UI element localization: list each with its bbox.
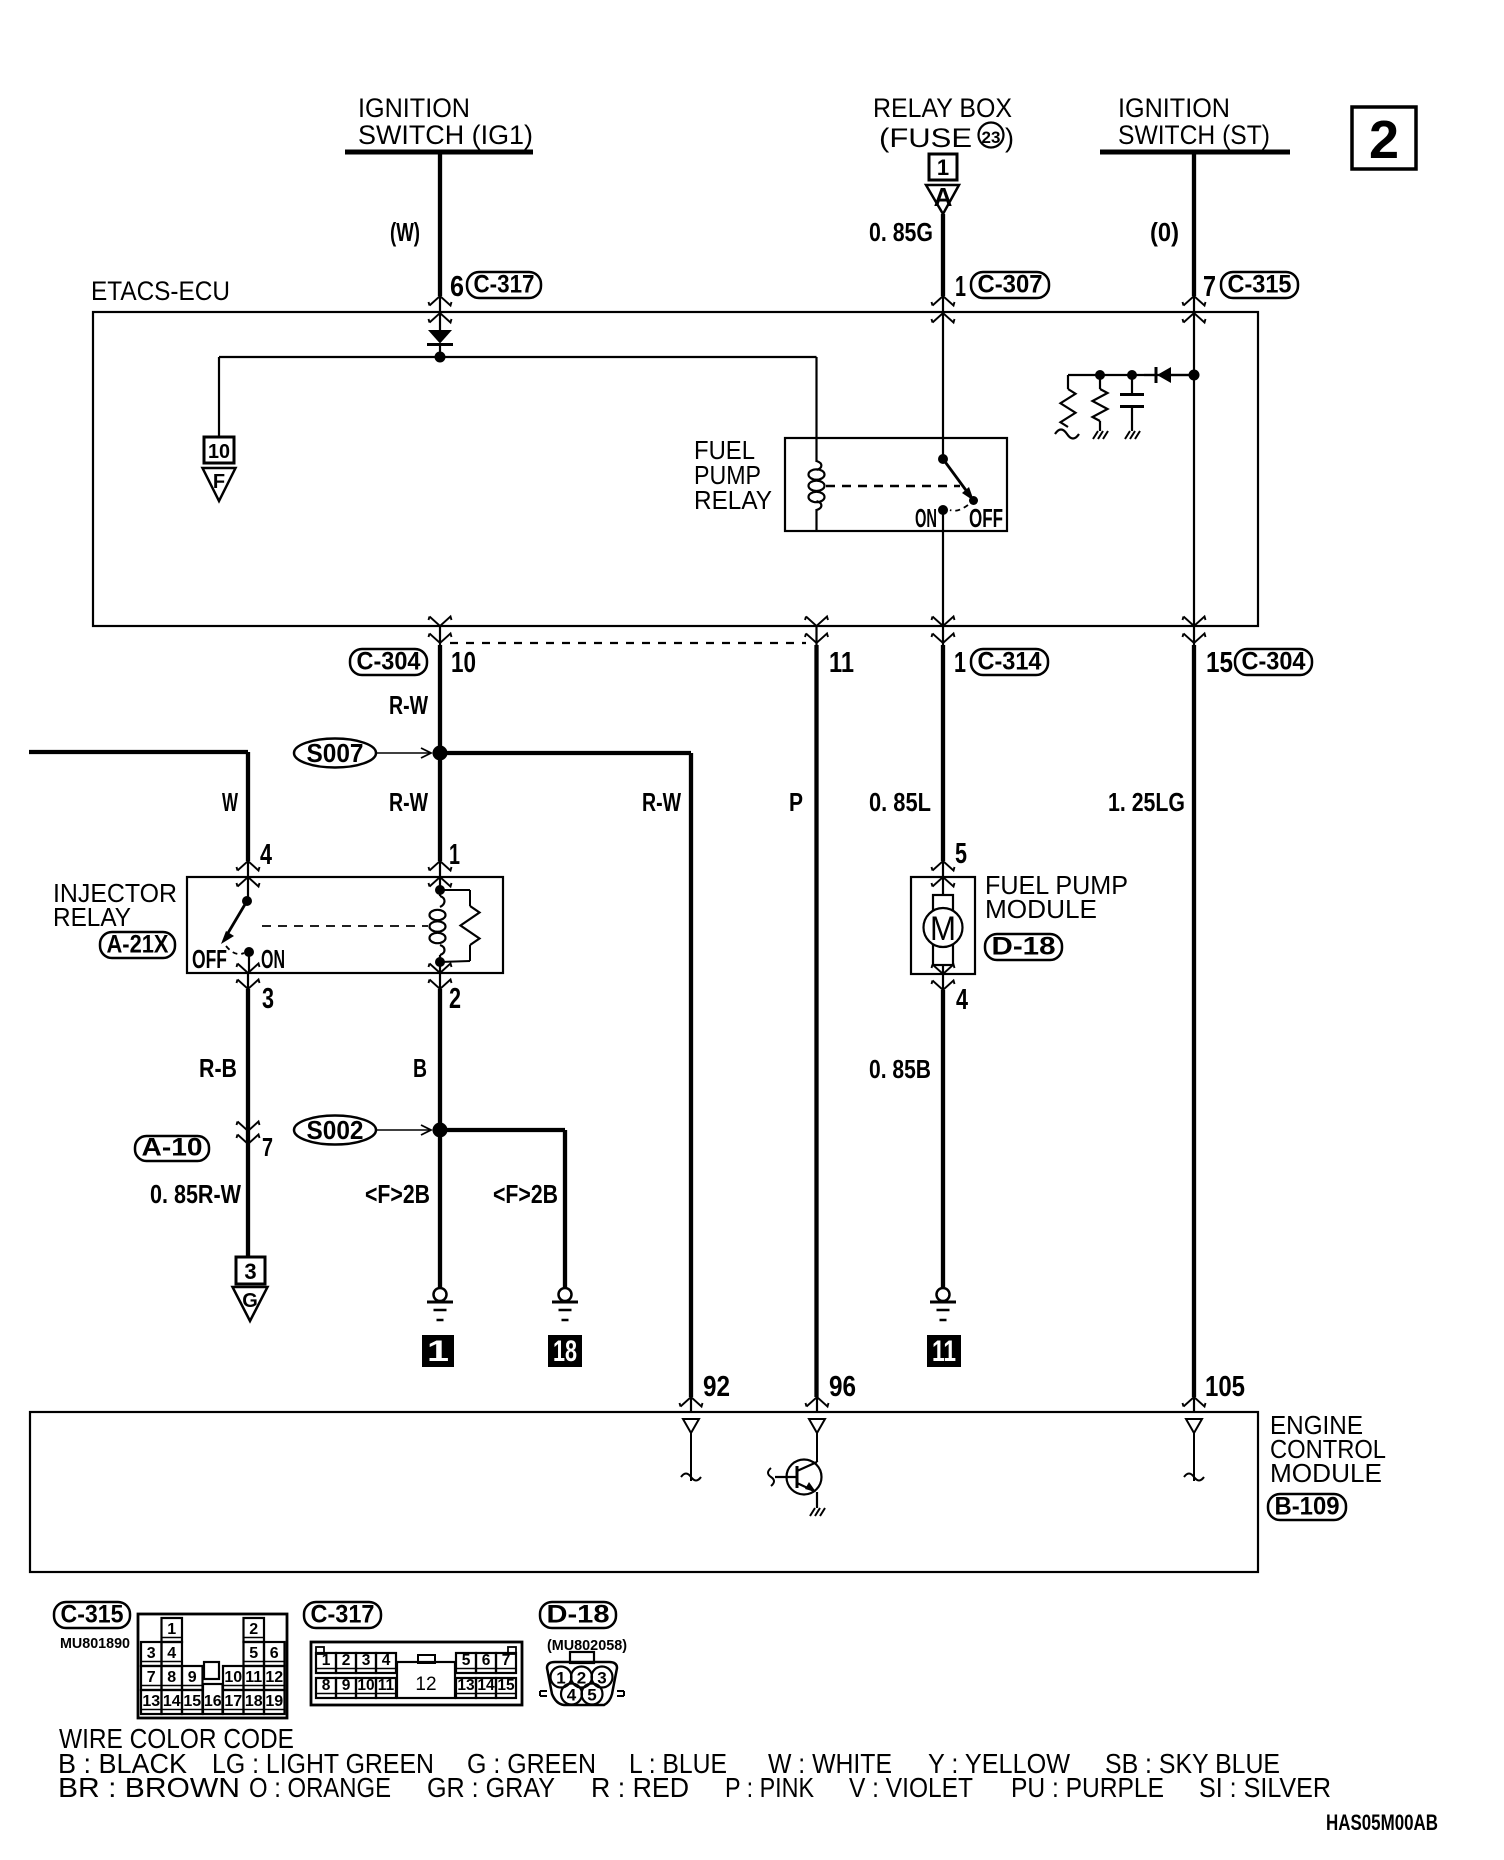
exit marks injector pin 2: [429, 964, 452, 974]
svg-text:1: 1: [954, 647, 966, 679]
injector coil dashed link: [262, 925, 428, 927]
transistor Q1: [787, 1460, 822, 1495]
connector marks at pin 6: [429, 296, 452, 306]
svg-text:7: 7: [502, 1652, 511, 1669]
svg-text:PU : PURPLE: PU : PURPLE: [1011, 1772, 1164, 1803]
svg-text:IGNITION: IGNITION: [358, 93, 470, 123]
connector A-10 capsule: [135, 1136, 209, 1161]
svg-text:5: 5: [955, 838, 967, 870]
engine control module box: [30, 1412, 1258, 1572]
svg-text:RELAY: RELAY: [53, 902, 131, 932]
injector coil bottom node: [435, 957, 445, 967]
svg-text:92: 92: [703, 1371, 730, 1403]
svg-text:96: 96: [829, 1371, 856, 1403]
svg-text:D-18: D-18: [992, 933, 1056, 961]
wire pin2 down (B): [438, 989, 442, 1130]
diode D1 on IG1 line: [428, 330, 452, 344]
svg-text:F: F: [213, 471, 225, 493]
ECM pin 92 internal: [683, 1419, 699, 1433]
svg-text:ON: ON: [261, 944, 285, 974]
exit marks pin 1 C-314: [932, 617, 955, 627]
svg-text:R-W: R-W: [389, 787, 428, 817]
svg-text:12: 12: [415, 1674, 436, 1695]
svg-text:15: 15: [497, 1677, 515, 1694]
connector A-21X capsule: [100, 932, 175, 958]
svg-text:10: 10: [357, 1677, 374, 1694]
svg-text:S002: S002: [307, 1115, 364, 1145]
svg-text:A: A: [934, 182, 953, 212]
svg-text:0. 85L: 0. 85L: [869, 787, 931, 817]
svg-text:18: 18: [553, 1335, 577, 1368]
junction S007: [433, 746, 448, 761]
wire ST down to C-315: [1192, 152, 1196, 296]
svg-text:BR : BROWN: BR : BROWN: [58, 1772, 240, 1803]
svg-text:23: 23: [982, 128, 1001, 147]
relay switch arm to OFF: [943, 459, 968, 493]
svg-text:G: G: [242, 1290, 258, 1312]
svg-text:OFF: OFF: [969, 503, 1003, 533]
svg-text:8: 8: [167, 1669, 176, 1686]
svg-text:5: 5: [587, 1686, 596, 1705]
injector ON contact: [244, 947, 254, 957]
svg-text:3: 3: [147, 1645, 156, 1662]
svg-text:11: 11: [378, 1677, 395, 1694]
svg-text:1: 1: [427, 1335, 449, 1368]
wire pin3 down: [246, 989, 250, 1257]
connector D-18 pin view: [570, 1652, 594, 1663]
svg-text:4: 4: [382, 1652, 391, 1669]
node on ST wire: [1189, 370, 1200, 381]
svg-text:1: 1: [937, 155, 949, 180]
svg-text:B-109: B-109: [1275, 1493, 1340, 1521]
connector C-304 capsule right: [1235, 649, 1312, 675]
svg-text:15: 15: [1206, 647, 1233, 679]
svg-text:C-314: C-314: [978, 648, 1042, 676]
svg-text:C-317: C-317: [311, 1601, 375, 1629]
svg-text:A-21X: A-21X: [107, 931, 169, 959]
svg-text:4: 4: [567, 1686, 577, 1705]
fuse 3 box: [236, 1257, 265, 1284]
wire fuse down to C-307: [941, 214, 945, 296]
svg-text:6: 6: [450, 271, 464, 303]
svg-text:15: 15: [183, 1693, 201, 1710]
ground id 11: [927, 1335, 961, 1367]
svg-text:11: 11: [932, 1335, 956, 1368]
resistor R2: [1099, 375, 1101, 389]
connector C-317 pin view: [311, 1642, 522, 1705]
fuse triangle G: [233, 1287, 268, 1321]
splice S007: [294, 739, 376, 768]
connector D-18 capsule bottom: [540, 1602, 616, 1628]
node a: [1095, 370, 1105, 380]
svg-text:10: 10: [451, 647, 476, 679]
svg-text:7: 7: [262, 1132, 273, 1162]
svg-text:R : RED: R : RED: [591, 1772, 689, 1803]
svg-text:4: 4: [956, 984, 968, 1016]
svg-text:2: 2: [342, 1652, 351, 1669]
svg-text:3: 3: [262, 983, 274, 1015]
svg-text:ETACS-ECU: ETACS-ECU: [91, 276, 230, 306]
svg-text:RELAY BOX: RELAY BOX: [873, 93, 1012, 123]
svg-text:1: 1: [955, 271, 966, 303]
wire pin10 down to S007: [438, 645, 442, 753]
entry marks injector pin 4: [237, 861, 260, 871]
svg-text:6: 6: [482, 1652, 491, 1669]
connector C-317 capsule: [467, 272, 541, 298]
svg-text:13: 13: [142, 1693, 160, 1710]
svg-text:S007: S007: [307, 738, 364, 768]
wire injector ON down: [248, 952, 250, 973]
svg-text:P: P: [789, 787, 803, 817]
fuel pump motor: [933, 895, 953, 917]
svg-text:C-315: C-315: [61, 1601, 124, 1629]
connector B-109 capsule: [1268, 1494, 1346, 1520]
svg-text:12: 12: [265, 1669, 283, 1686]
wire down to fuse 10: [218, 357, 220, 437]
fuse 10 box: [204, 437, 234, 463]
svg-text:C-304: C-304: [357, 648, 421, 676]
exit marks injector pin 3: [237, 964, 260, 974]
capacitor C1: [1131, 375, 1133, 394]
svg-text:M: M: [930, 910, 956, 948]
svg-text:(W): (W): [390, 217, 420, 247]
svg-text:7: 7: [147, 1669, 156, 1686]
svg-text:V : VIOLET: V : VIOLET: [849, 1772, 973, 1803]
svg-text:C-307: C-307: [978, 271, 1043, 299]
svg-text:1: 1: [322, 1652, 331, 1669]
wire ON contact down: [942, 510, 944, 626]
wire coil bottom down: [439, 962, 441, 973]
svg-text:MU801890: MU801890: [60, 1635, 130, 1652]
connector marks at pin 1: [932, 296, 955, 306]
svg-text:SWITCH (IG1): SWITCH (IG1): [358, 120, 533, 150]
svg-text:10: 10: [208, 441, 230, 463]
svg-text:1: 1: [167, 1621, 176, 1638]
svg-text:C-317: C-317: [474, 271, 535, 299]
svg-text:1. 25LG: 1. 25LG: [1108, 787, 1185, 817]
svg-text:R-B: R-B: [199, 1053, 237, 1083]
svg-text:11: 11: [829, 647, 854, 679]
relay OFF dashed arc: [950, 505, 968, 511]
exit marks pin 11: [805, 617, 828, 627]
entry mark ECM 96: [806, 1397, 829, 1407]
wire pin15 down (1.25LG): [1192, 645, 1196, 1397]
svg-text:1: 1: [449, 839, 460, 871]
ETACS-ECU box: [93, 312, 1258, 626]
svg-text:ON: ON: [915, 503, 937, 533]
wire IG1 down to connector C-317: [438, 152, 442, 296]
svg-text:R-W: R-W: [642, 787, 681, 817]
svg-text:2: 2: [1369, 110, 1399, 170]
node b: [1127, 370, 1137, 380]
resistor R1: [1067, 375, 1069, 389]
svg-text:17: 17: [224, 1693, 242, 1710]
svg-text:16: 16: [204, 1693, 222, 1710]
exit marks module pin 4: [932, 965, 955, 975]
ground id 18: [548, 1335, 582, 1367]
relay ON contact: [938, 505, 948, 515]
wire pin11 down (P): [814, 645, 818, 1397]
entry mark ECM 92: [680, 1397, 703, 1407]
svg-text:MODULE: MODULE: [985, 894, 1097, 924]
ground G1: [434, 1288, 447, 1301]
connector C-304 dashed outline: [450, 642, 806, 644]
svg-text:13: 13: [457, 1677, 475, 1694]
svg-text:OFF: OFF: [192, 944, 227, 974]
connector C-317 capsule bottom: [304, 1602, 381, 1628]
entry mark ECM 105: [1183, 1397, 1206, 1407]
svg-text:): ): [1005, 123, 1014, 153]
svg-text:9: 9: [188, 1669, 197, 1686]
svg-text:8: 8: [322, 1677, 331, 1694]
injector relay coil: [440, 896, 445, 907]
ignition switch ST bus bar: [1100, 150, 1290, 155]
svg-text:(0): (0): [1150, 217, 1179, 247]
connector C-304 capsule: [350, 649, 427, 675]
svg-text:4: 4: [260, 839, 272, 871]
svg-text:11: 11: [245, 1669, 262, 1686]
connector marks at pin 7: [1183, 296, 1206, 306]
svg-text:(FUSE: (FUSE: [879, 123, 972, 153]
injector coil top node: [435, 885, 445, 895]
svg-text:GR : GRAY: GR : GRAY: [427, 1772, 555, 1803]
connector C-315 capsule bottom: [54, 1602, 130, 1628]
svg-text:19: 19: [265, 1693, 283, 1710]
svg-text:0. 85B: 0. 85B: [869, 1054, 931, 1084]
svg-text:W: W: [222, 787, 238, 817]
svg-text:3: 3: [362, 1652, 371, 1669]
svg-text:RELAY: RELAY: [694, 485, 772, 515]
inline connector A-10 marks: [237, 1122, 260, 1132]
svg-text:2: 2: [449, 983, 461, 1015]
ground id 1: [422, 1335, 454, 1367]
wire C-314 down (0.85L): [941, 645, 945, 861]
svg-text:5: 5: [462, 1652, 471, 1669]
svg-text:MODULE: MODULE: [1270, 1458, 1382, 1488]
svg-text:6: 6: [270, 1645, 279, 1662]
svg-text:IGNITION: IGNITION: [1118, 93, 1230, 123]
relay actuation dashed link: [826, 485, 960, 488]
svg-text:A-10: A-10: [142, 1134, 203, 1162]
wire S002 branch right: [440, 1128, 565, 1132]
svg-text:0. 85G: 0. 85G: [869, 217, 933, 247]
injector OFF dashed arc: [226, 946, 244, 954]
injector relay box: [187, 877, 503, 973]
fuel pump relay coil: [817, 461, 822, 470]
wire down to relay coil: [815, 357, 817, 459]
node junction on IG1 line: [435, 352, 446, 363]
entry marks injector pin 1: [429, 861, 452, 871]
svg-text:<F>2B: <F>2B: [493, 1179, 558, 1209]
relay switch pivot: [938, 454, 948, 464]
svg-text:14: 14: [477, 1677, 495, 1694]
fuse triangle F: [203, 468, 236, 501]
wire S002 down: [438, 1130, 442, 1288]
svg-text:1: 1: [556, 1669, 565, 1688]
internal node wire: [1068, 374, 1194, 376]
internal wire across ETACS: [219, 356, 817, 358]
junction S002: [433, 1123, 448, 1138]
fuel pump module box: [911, 877, 975, 974]
svg-text:2: 2: [249, 1621, 258, 1638]
svg-text:4: 4: [167, 1645, 176, 1662]
page number badge 2: [1352, 107, 1416, 169]
connector C-315 capsule: [1221, 272, 1298, 298]
svg-text:0. 85R-W: 0. 85R-W: [150, 1179, 241, 1209]
diode D2: [1144, 374, 1155, 376]
svg-text:7: 7: [1203, 271, 1216, 303]
svg-text:D-18: D-18: [547, 1601, 610, 1629]
fuse triangle A: [926, 185, 959, 214]
entry marks module pin 5: [932, 861, 955, 871]
svg-text:R-W: R-W: [389, 690, 428, 720]
fuse 1 box: [929, 154, 957, 180]
svg-text:SI : SILVER: SI : SILVER: [1199, 1772, 1331, 1803]
svg-text:<F>2B: <F>2B: [365, 1179, 430, 1209]
svg-text:C-304: C-304: [1242, 648, 1306, 676]
svg-text:10: 10: [224, 1669, 242, 1686]
injector coil shunt resistor: [440, 889, 470, 891]
connector C-307 capsule: [971, 272, 1049, 298]
injector switch pivot: [242, 896, 252, 906]
ground G11: [937, 1288, 950, 1301]
svg-text:5: 5: [249, 1645, 258, 1662]
svg-text:P : PINK: P : PINK: [725, 1772, 814, 1803]
svg-text:18: 18: [245, 1693, 263, 1710]
svg-text:14: 14: [163, 1693, 181, 1710]
wire S007 down: [438, 753, 442, 861]
wire S007 branch right: [440, 751, 691, 755]
ignition switch IG1 bus bar: [345, 150, 533, 155]
svg-text:3: 3: [244, 1259, 256, 1284]
connector C-315 pin view: [138, 1614, 287, 1718]
fuel pump relay box: [785, 438, 1007, 531]
svg-text:O : ORANGE: O : ORANGE: [249, 1772, 391, 1803]
exit marks pin 15: [1183, 617, 1206, 627]
splice S002: [294, 1116, 376, 1145]
wire from other page (W): [29, 750, 248, 754]
svg-text:HAS05M00AB: HAS05M00AB: [1326, 1810, 1438, 1835]
ECM pin 96 internal: [809, 1419, 825, 1433]
ECM pin 105 internal: [1186, 1419, 1202, 1433]
svg-text:9: 9: [342, 1677, 351, 1694]
connector C-314 capsule: [971, 649, 1048, 675]
injector switch arm to OFF: [228, 901, 247, 933]
svg-text:C-315: C-315: [1228, 271, 1292, 299]
svg-text:SWITCH (ST): SWITCH (ST): [1118, 120, 1270, 150]
ground G18: [559, 1288, 572, 1301]
wire module down 0.85B: [941, 990, 945, 1288]
svg-text:105: 105: [1205, 1371, 1245, 1403]
exit marks pin 10: [429, 617, 452, 627]
connector D-18 capsule: [985, 934, 1062, 960]
svg-text:B: B: [413, 1053, 427, 1083]
